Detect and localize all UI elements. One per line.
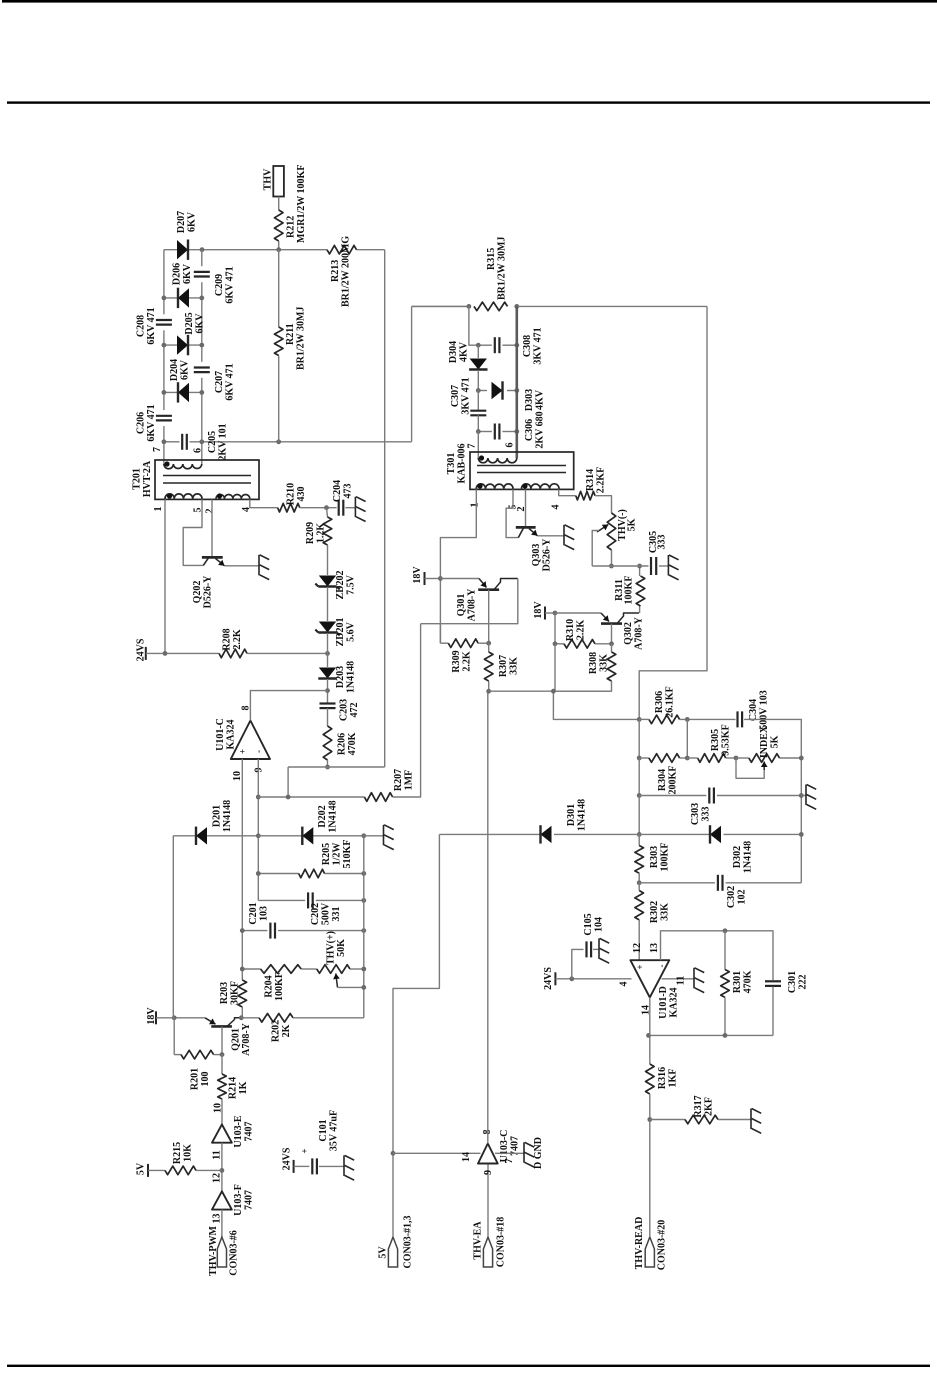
- wire rung D205: [164, 344, 202, 346]
- resistor R201: [174, 1054, 181, 1056]
- svg-text:R204: R204: [264, 975, 275, 997]
- svg-text:331: 331: [331, 907, 342, 922]
- resistor R213: [327, 245, 357, 254]
- node junction D302 right: [799, 832, 804, 837]
- svg-text:R316: R316: [657, 1067, 668, 1089]
- svg-text:1N4148: 1N4148: [346, 661, 357, 693]
- wire C306 line: [478, 431, 492, 433]
- ground at C303 rail: [801, 795, 806, 797]
- wire C105 to ground: [593, 948, 599, 950]
- wire R204 line: [242, 968, 260, 970]
- svg-text:500V: 500V: [321, 902, 332, 925]
- svg-text:R305: R305: [710, 729, 721, 751]
- wire T201 pin5 to Q202 base: [183, 499, 203, 565]
- resistor R301: [724, 931, 726, 970]
- svg-text:CON03-#1,3: CON03-#1,3: [403, 1215, 414, 1268]
- buffer U103-F 7407: [212, 1191, 232, 1209]
- diode D301: [541, 826, 552, 843]
- wire rung D204: [164, 391, 202, 393]
- wire bottom rail to T301 bus: [411, 306, 413, 441]
- capacitor C206: [156, 415, 172, 417]
- potentiometer INDEX 5K: [749, 754, 780, 763]
- svg-text:R211: R211: [285, 323, 296, 345]
- resistor R305: [698, 754, 726, 763]
- pin 13 label: [649, 943, 660, 953]
- svg-text:R315: R315: [486, 248, 497, 270]
- wire 18V rail down to R201: [173, 1018, 175, 1055]
- wire U101-C output pin8: [250, 691, 327, 721]
- svg-text:10: 10: [232, 771, 243, 781]
- svg-text:R317: R317: [693, 1095, 704, 1117]
- ground at R317: [750, 1109, 752, 1130]
- resistor R211: [278, 250, 280, 327]
- power 5V (R215): [147, 1164, 149, 1177]
- resistor R208: [219, 649, 247, 658]
- wire T301 pin5 to Q303 base: [506, 489, 518, 537]
- wire Q202 emitter to ground: [225, 565, 260, 567]
- pin 11 label: [676, 976, 687, 985]
- resistor R203: [238, 980, 247, 1007]
- wire ZD202 to ZD201: [327, 587, 329, 621]
- node junction 18V/pin1 rail: [438, 576, 443, 581]
- power 18V (Q302): [544, 607, 546, 620]
- wire R316 to R317 node: [649, 1094, 651, 1120]
- svg-text:2.2KF: 2.2KF: [596, 467, 607, 493]
- potentiometer THV(+) 50K: [317, 965, 350, 974]
- node junction 18V branch: [553, 611, 558, 616]
- svg-text:A708-Y: A708-Y: [467, 588, 478, 622]
- wire C204 to ground: [345, 507, 355, 509]
- ground at C105: [598, 938, 600, 959]
- wire 18V branch down to R310: [554, 613, 556, 644]
- wire right rail (D202..R202): [363, 836, 365, 1018]
- wire R202 to right rail: [293, 1017, 364, 1019]
- resistor R215: [165, 1166, 196, 1175]
- resistor R316: [646, 1064, 655, 1094]
- capacitor C105: [585, 941, 587, 957]
- svg-text:11: 11: [212, 1150, 223, 1159]
- capacitor C203: [320, 702, 336, 704]
- node junction R210/R209: [324, 505, 329, 510]
- svg-text:24VS: 24VS: [136, 638, 147, 661]
- wire 18V to Q201 emitter: [156, 1017, 205, 1019]
- svg-text:18V: 18V: [533, 601, 544, 619]
- diode D205: [177, 335, 188, 354]
- svg-text:C307: C307: [450, 385, 461, 407]
- svg-text:2: 2: [205, 509, 216, 514]
- power 24VS: [145, 647, 147, 660]
- ground at Q303: [563, 525, 565, 546]
- wire R209 to ZD202: [327, 545, 329, 575]
- svg-text:D204: D204: [169, 359, 180, 381]
- node junction C308: [476, 343, 481, 348]
- svg-text:T201: T201: [132, 468, 143, 490]
- svg-text:C206: C206: [136, 412, 147, 434]
- node rung3 junctions: [162, 343, 167, 348]
- pin 6 label T301: [505, 443, 516, 448]
- svg-text:200KF: 200KF: [668, 766, 679, 795]
- svg-text:R206: R206: [337, 733, 348, 755]
- pin 14 label U103-C: [461, 1152, 472, 1162]
- transformer T201: [155, 460, 259, 499]
- svg-text:100KF: 100KF: [274, 972, 285, 1001]
- pin 4 label T201: [241, 507, 252, 512]
- svg-text:33K: 33K: [509, 657, 520, 675]
- svg-text:1MF: 1MF: [404, 770, 415, 791]
- wire D201 line: [173, 835, 190, 837]
- pin 10 label U103-E: [213, 1103, 224, 1113]
- svg-text:9.53KF: 9.53KF: [721, 724, 732, 755]
- svg-text:ZD201: ZD201: [335, 618, 346, 647]
- capacitor C204: [338, 500, 340, 516]
- pin 12 label: [212, 1173, 223, 1183]
- op-amp U101-C KA324: [231, 721, 270, 760]
- ground at Q202 emitter: [258, 555, 260, 576]
- wire D303 line: [478, 390, 487, 392]
- node junction R212/bus: [276, 247, 281, 252]
- svg-text:33K: 33K: [599, 654, 610, 672]
- capacitor C209: [194, 271, 210, 273]
- node junction R206 bottom: [325, 765, 330, 770]
- pin 7 label T201: [152, 447, 163, 452]
- wire R311 top to THV(-) node: [639, 566, 641, 576]
- pin 11 label: [212, 1150, 223, 1159]
- wire T301 pin4 to R314: [559, 489, 576, 495]
- diode D203: [319, 668, 336, 679]
- svg-text:472: 472: [349, 703, 360, 718]
- wire R203 bottom to collector node: [241, 1007, 243, 1018]
- svg-text:THV(+): THV(+): [326, 931, 337, 965]
- wire pin11 to ground: [662, 978, 695, 980]
- svg-text:7.5V: 7.5V: [346, 574, 357, 595]
- ground at pin11: [693, 968, 695, 989]
- svg-text:18V: 18V: [146, 1007, 157, 1025]
- wire R208 to zener chain: [247, 652, 328, 654]
- wire THV-EA connector to U103-C pin9: [487, 1164, 489, 1238]
- capacitor C306: [494, 424, 496, 440]
- svg-text:R215: R215: [172, 1142, 183, 1164]
- node junction 18V/left rail: [172, 1015, 177, 1020]
- svg-text:10: 10: [213, 1103, 224, 1113]
- svg-text:6: 6: [193, 448, 204, 453]
- wire pin13 to feedback line: [661, 931, 774, 980]
- pin 12 label: [632, 943, 643, 953]
- potentiometer THV(-) 5K: [607, 513, 616, 550]
- svg-text:6KV 471: 6KV 471: [146, 404, 157, 441]
- svg-text:D526-Y: D526-Y: [542, 538, 553, 572]
- header rule: [7, 101, 930, 103]
- wire R206 node down to pin9 line: [287, 767, 289, 797]
- resistor R314: [576, 491, 595, 500]
- svg-text:+: +: [300, 1148, 310, 1153]
- svg-text:R209: R209: [305, 522, 316, 544]
- footer rule: [7, 1365, 930, 1367]
- svg-text:2KV 680: 2KV 680: [535, 411, 546, 448]
- svg-text:+: +: [635, 964, 645, 969]
- wire 18V tick to rail: [425, 578, 441, 580]
- wire R307 node to R308 node: [489, 690, 611, 692]
- capacitor C201: [269, 923, 271, 939]
- svg-text:D301: D301: [566, 804, 577, 826]
- svg-text:1.2K: 1.2K: [316, 523, 327, 544]
- svg-text:C205: C205: [207, 431, 218, 453]
- svg-text:Q201: Q201: [231, 1028, 242, 1051]
- svg-text:C101: C101: [318, 1119, 329, 1141]
- node junction R201/R214/base: [220, 1052, 225, 1057]
- svg-text:6KV: 6KV: [180, 359, 191, 380]
- svg-text:333: 333: [657, 535, 668, 550]
- svg-text:D207: D207: [176, 211, 187, 233]
- svg-text:D201: D201: [212, 805, 223, 827]
- svg-text:2KV 101: 2KV 101: [218, 423, 229, 460]
- wire R306 to C304: [680, 718, 736, 720]
- wire C203 to R206: [327, 708, 329, 726]
- ground at D202 line: [364, 835, 384, 837]
- svg-text:R207: R207: [393, 769, 404, 791]
- svg-text:7: 7: [152, 447, 163, 452]
- node junction C303 rung: [637, 793, 642, 798]
- zener ZD202: [319, 576, 336, 587]
- wire C302 line: [639, 882, 715, 884]
- wire pot bottom to C305 line: [611, 550, 613, 566]
- svg-text:100KF: 100KF: [660, 843, 671, 872]
- buffer U103-C 7407: [478, 1144, 498, 1164]
- svg-text:HVT-2A: HVT-2A: [142, 460, 153, 497]
- svg-text:C302: C302: [726, 886, 737, 908]
- svg-text:R303: R303: [649, 846, 660, 868]
- svg-text:5.6V: 5.6V: [346, 621, 357, 642]
- pin 1 label T201: [153, 507, 164, 512]
- wire feedback bottom line: [649, 1034, 774, 1036]
- capacitor C303 line: [639, 795, 706, 797]
- svg-text:103: 103: [259, 906, 270, 921]
- svg-text:D205: D205: [184, 312, 195, 334]
- node junction R315 right: [514, 304, 519, 309]
- pin 2 label T201: [205, 509, 216, 514]
- pin 8 label U103-C: [482, 1130, 493, 1135]
- pin 1 label T301: [470, 503, 481, 508]
- svg-text:A708-Y: A708-Y: [634, 616, 645, 650]
- svg-text:9: 9: [254, 768, 265, 773]
- pin 8 label: [241, 706, 252, 711]
- svg-text:U101-D: U101-D: [658, 986, 669, 1019]
- diode D204: [178, 383, 189, 402]
- node junction Q201 collector/R203/R202: [239, 1015, 244, 1020]
- svg-text:R208: R208: [222, 628, 233, 650]
- svg-text:A708-Y: A708-Y: [241, 1022, 252, 1056]
- svg-text:R314: R314: [585, 469, 596, 491]
- svg-text:Q302: Q302: [623, 622, 634, 645]
- svg-text:R213: R213: [330, 260, 341, 282]
- node junction R204 left: [240, 967, 245, 972]
- wire R206 bottom: [327, 760, 329, 767]
- resistor R302: [635, 891, 644, 920]
- svg-text:12: 12: [632, 943, 643, 953]
- transistor Q202: [202, 556, 223, 559]
- svg-text:R307: R307: [498, 655, 509, 677]
- node junction R305/INDEX wiper: [734, 756, 739, 761]
- resistor R310: [555, 643, 564, 645]
- svg-text:C203: C203: [339, 699, 350, 721]
- node junction pot/C305: [609, 564, 614, 569]
- svg-text:2.2K: 2.2K: [232, 629, 243, 650]
- svg-text:R212: R212: [286, 216, 297, 238]
- svg-text:7407: 7407: [244, 1190, 255, 1210]
- connector THV-READ CON03-#20: [645, 1237, 654, 1267]
- svg-text:3KV 471: 3KV 471: [461, 377, 472, 414]
- page top black band: [2, 0, 937, 3]
- wire multiplier left rail: [163, 250, 165, 315]
- wire 24VS to C101: [294, 1165, 310, 1167]
- node junction R301 top: [723, 928, 728, 933]
- resistor R311: [636, 576, 645, 606]
- wire R302 to U101-D pin12: [638, 920, 640, 960]
- pin 2 label T301: [516, 507, 527, 512]
- wire Q301 collector loop: [421, 579, 518, 624]
- wire D202 line: [258, 835, 364, 837]
- svg-text:THV-READ: THV-READ: [634, 1217, 645, 1270]
- svg-text:U103-C: U103-C: [499, 1130, 510, 1163]
- svg-text:2.2K: 2.2K: [462, 651, 473, 672]
- wire R215 to chain: [196, 1169, 222, 1171]
- svg-text:50K: 50K: [336, 939, 347, 957]
- svg-text:4KV: 4KV: [459, 341, 470, 362]
- node junction R311/C305 line: [637, 564, 642, 569]
- node junction C209/bus: [200, 247, 205, 252]
- svg-text:1N4148: 1N4148: [222, 800, 233, 832]
- svg-text:R203: R203: [219, 982, 230, 1004]
- svg-text:CON03-#20: CON03-#20: [657, 1220, 668, 1271]
- wire R209 top: [327, 508, 328, 517]
- transistor Q201: [211, 1025, 232, 1028]
- svg-text:7407: 7407: [244, 1122, 255, 1142]
- wire R205 line: [258, 873, 298, 875]
- svg-text:MGR1/2W 100KF: MGR1/2W 100KF: [296, 165, 307, 243]
- svg-text:C201: C201: [248, 902, 259, 924]
- svg-text:9: 9: [483, 1170, 494, 1175]
- svg-text:C301: C301: [787, 971, 798, 993]
- resistor R317: [650, 1119, 685, 1121]
- resistor R202: [241, 1017, 259, 1019]
- svg-text:333: 333: [701, 807, 712, 822]
- wire D203 to pin8 node: [327, 679, 329, 704]
- diode D302: [710, 826, 721, 843]
- wire T301 pin1 jog: [440, 489, 476, 643]
- svg-text:D526-Y: D526-Y: [203, 575, 214, 609]
- svg-text:500V 103: 500V 103: [759, 690, 770, 730]
- svg-text:R306: R306: [654, 691, 665, 713]
- node junction R206-node/pin9 line: [286, 795, 291, 800]
- wire T301 pin2 to Q303 collector: [525, 489, 527, 527]
- svg-text:KA324: KA324: [226, 720, 237, 750]
- wire 24VS to R208: [146, 652, 219, 654]
- node junction opamp out: [325, 688, 330, 693]
- svg-text:6KV: 6KV: [187, 211, 198, 232]
- resistor R210: [278, 503, 300, 512]
- resistor R315: [474, 302, 508, 311]
- wire C202 line: [258, 899, 305, 901]
- resistor R205: [299, 869, 325, 878]
- wire R306-R305 vertical tie: [686, 719, 688, 758]
- svg-text:THV-EA: THV-EA: [473, 1221, 484, 1260]
- svg-text:3KV 471: 3KV 471: [533, 327, 544, 364]
- svg-text:24VS: 24VS: [282, 1147, 293, 1170]
- svg-text:INDEX: INDEX: [759, 725, 770, 758]
- diode D304: [477, 345, 479, 358]
- capacitor C307: [477, 391, 479, 411]
- svg-text:470K: 470K: [347, 732, 358, 755]
- svg-text:R201: R201: [190, 1068, 201, 1090]
- node junction D202 right: [361, 833, 366, 838]
- capacitor C101: [311, 1158, 313, 1174]
- wire T301 pin6 rail (thick): [515, 306, 518, 458]
- svg-text:26.1KF: 26.1KF: [665, 686, 676, 717]
- wire R207 to Q301 collector loop: [393, 624, 421, 797]
- wire 5V connector rail up to D301 line: [393, 834, 439, 1237]
- svg-text:1: 1: [470, 503, 481, 508]
- svg-text:BR1/2W 200MG: BR1/2W 200MG: [341, 236, 352, 307]
- wire rail C303 to D301 line: [638, 796, 640, 835]
- wire T301 HV bus: [412, 305, 469, 307]
- svg-text:R210: R210: [286, 483, 297, 505]
- node junction R215/buffer chain: [220, 1168, 225, 1173]
- node junction pin14/feedback: [646, 1033, 651, 1038]
- transistor Q301: [478, 588, 499, 591]
- node junction C201 left: [240, 928, 245, 933]
- ground at C204: [354, 497, 356, 518]
- svg-text:R214: R214: [228, 1077, 239, 1099]
- resistor R212: [274, 210, 283, 241]
- wire THV-READ connector rail up: [649, 1120, 651, 1238]
- wire R317 to ground: [718, 1119, 751, 1121]
- resistor R306: [649, 715, 680, 724]
- node junction R310/R308/base: [553, 641, 558, 646]
- svg-text:14: 14: [641, 1005, 652, 1015]
- node junction R304/R305: [685, 756, 690, 761]
- node junction C306: [476, 429, 481, 434]
- node junction INDEX right: [799, 756, 804, 761]
- wire HV bus (top rail of multiplier): [164, 249, 327, 251]
- node junction D201/D202/pin9rail: [256, 833, 261, 838]
- wire C101 to ground: [319, 1165, 344, 1167]
- resistor R303: [638, 834, 640, 845]
- wire pin 7 to D GND: [495, 1152, 524, 1154]
- wire D302 line: [639, 833, 710, 835]
- pin 9 label: [254, 768, 265, 773]
- node THV terminal box: [273, 166, 284, 197]
- pin 13 label: [212, 1214, 223, 1224]
- wire R206 node horizontal: [288, 766, 385, 768]
- node junction D303: [476, 388, 481, 393]
- svg-text:4: 4: [619, 982, 630, 987]
- diode D207: [177, 240, 188, 259]
- wire left rail (D201 line to 18V): [172, 836, 174, 1018]
- svg-text:-: -: [254, 750, 264, 753]
- capacitor C208: [156, 319, 172, 321]
- svg-text:35V 47uF: 35V 47uF: [329, 1110, 340, 1151]
- wire 18V to Q301 emitter: [440, 578, 479, 580]
- svg-text:KA324: KA324: [669, 988, 680, 1018]
- wire U103-C out rail up to R307 node: [487, 691, 489, 1143]
- svg-text:33K: 33K: [660, 903, 671, 921]
- svg-text:KAB-006: KAB-006: [457, 444, 468, 484]
- svg-text:U103-F: U103-F: [233, 1184, 244, 1216]
- svg-text:10K: 10K: [183, 1144, 194, 1162]
- pin 7 label T301: [467, 444, 478, 449]
- svg-text:D202: D202: [317, 805, 328, 827]
- svg-text:U103-E: U103-E: [233, 1115, 244, 1148]
- connector THV-EA CON03-#18: [483, 1237, 492, 1267]
